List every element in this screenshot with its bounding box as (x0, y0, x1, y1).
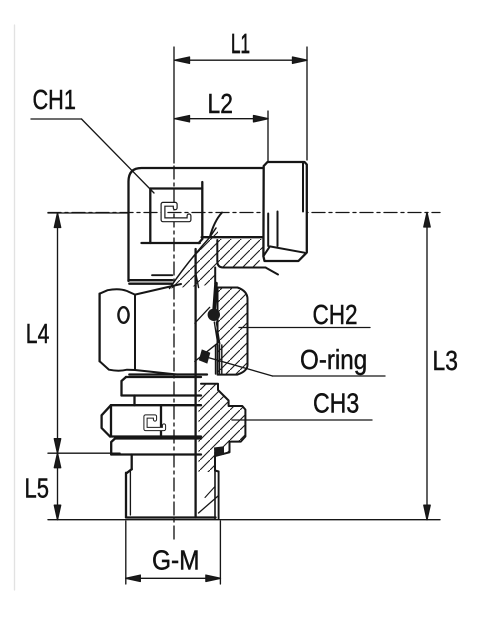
neck2 (131, 455, 133, 470)
svg-text:L2: L2 (208, 89, 233, 119)
stud right section (199, 453, 219, 520)
section break line (170, 228, 217, 289)
spanner flats square CH1 (142, 182, 203, 243)
washer1 (122, 377, 202, 396)
svg-text:CH2: CH2 (313, 300, 358, 331)
nipple od line (214, 268, 216, 284)
svg-text:CH3: CH3 (313, 389, 359, 419)
wrench symbol CH1 (163, 204, 189, 220)
body section profile (201, 384, 245, 472)
wrench symbol CH3 (146, 417, 165, 430)
leader CH1 (31, 119, 154, 193)
svg-text:L5: L5 (25, 473, 49, 504)
leader CH3 (232, 419, 372, 421)
washer2 (111, 439, 201, 455)
svg-text:L1: L1 (231, 28, 250, 59)
dimension G-M (126, 521, 221, 584)
o-ring (208, 309, 220, 321)
nut cross-section hatched (218, 288, 248, 375)
nut stamp 0 (118, 307, 128, 323)
svg-text:G-M: G-M (152, 544, 200, 576)
centerline vertical (173, 166, 175, 540)
bore wall line (194, 249, 196, 518)
flange right slant (266, 268, 279, 275)
thread engagement lines (216, 345, 222, 374)
nipple flange contour (217, 240, 265, 268)
stud bottom (126, 516, 216, 518)
centerline horizontal (48, 212, 440, 214)
nipple taper below o-ring (214, 322, 220, 344)
dimension L3 (424, 213, 430, 520)
skirt bottom chamfer (196, 274, 199, 288)
body section hatched (199, 384, 246, 472)
backup seal black (199, 349, 211, 363)
svg-text:O-ring: O-ring (300, 346, 367, 376)
dimension L5 (48, 453, 440, 520)
groove seal black (214, 446, 224, 455)
svg-text:L3: L3 (433, 346, 458, 376)
locknut CH3 (102, 405, 201, 436)
leader CH2 (239, 327, 370, 329)
dimension L4 (48, 213, 128, 453)
dimension L1 (174, 47, 307, 163)
seal line above o-ring (214, 284, 216, 309)
svg-text:L4: L4 (26, 319, 50, 349)
page fold faint line (14, 25, 16, 590)
stud thread left (126, 472, 130, 518)
arm bottom edge (202, 236, 264, 238)
right cap outline (263, 162, 306, 261)
neck1 (133, 396, 135, 406)
swivel nut (100, 284, 207, 375)
leader O-ring (208, 358, 385, 377)
seat chamfer line (195, 342, 219, 361)
skirt recess line (152, 274, 172, 276)
svg-text:CH1: CH1 (33, 85, 76, 115)
elbow body outline (129, 168, 264, 281)
hatch elbow skirt and flange (170, 228, 264, 289)
elbow body bottom edge (129, 279, 173, 281)
neck2 chamfer (127, 469, 132, 473)
o-ring seat cone line (195, 307, 210, 323)
bore curve upper (210, 213, 222, 238)
dimension L2 (175, 111, 268, 161)
